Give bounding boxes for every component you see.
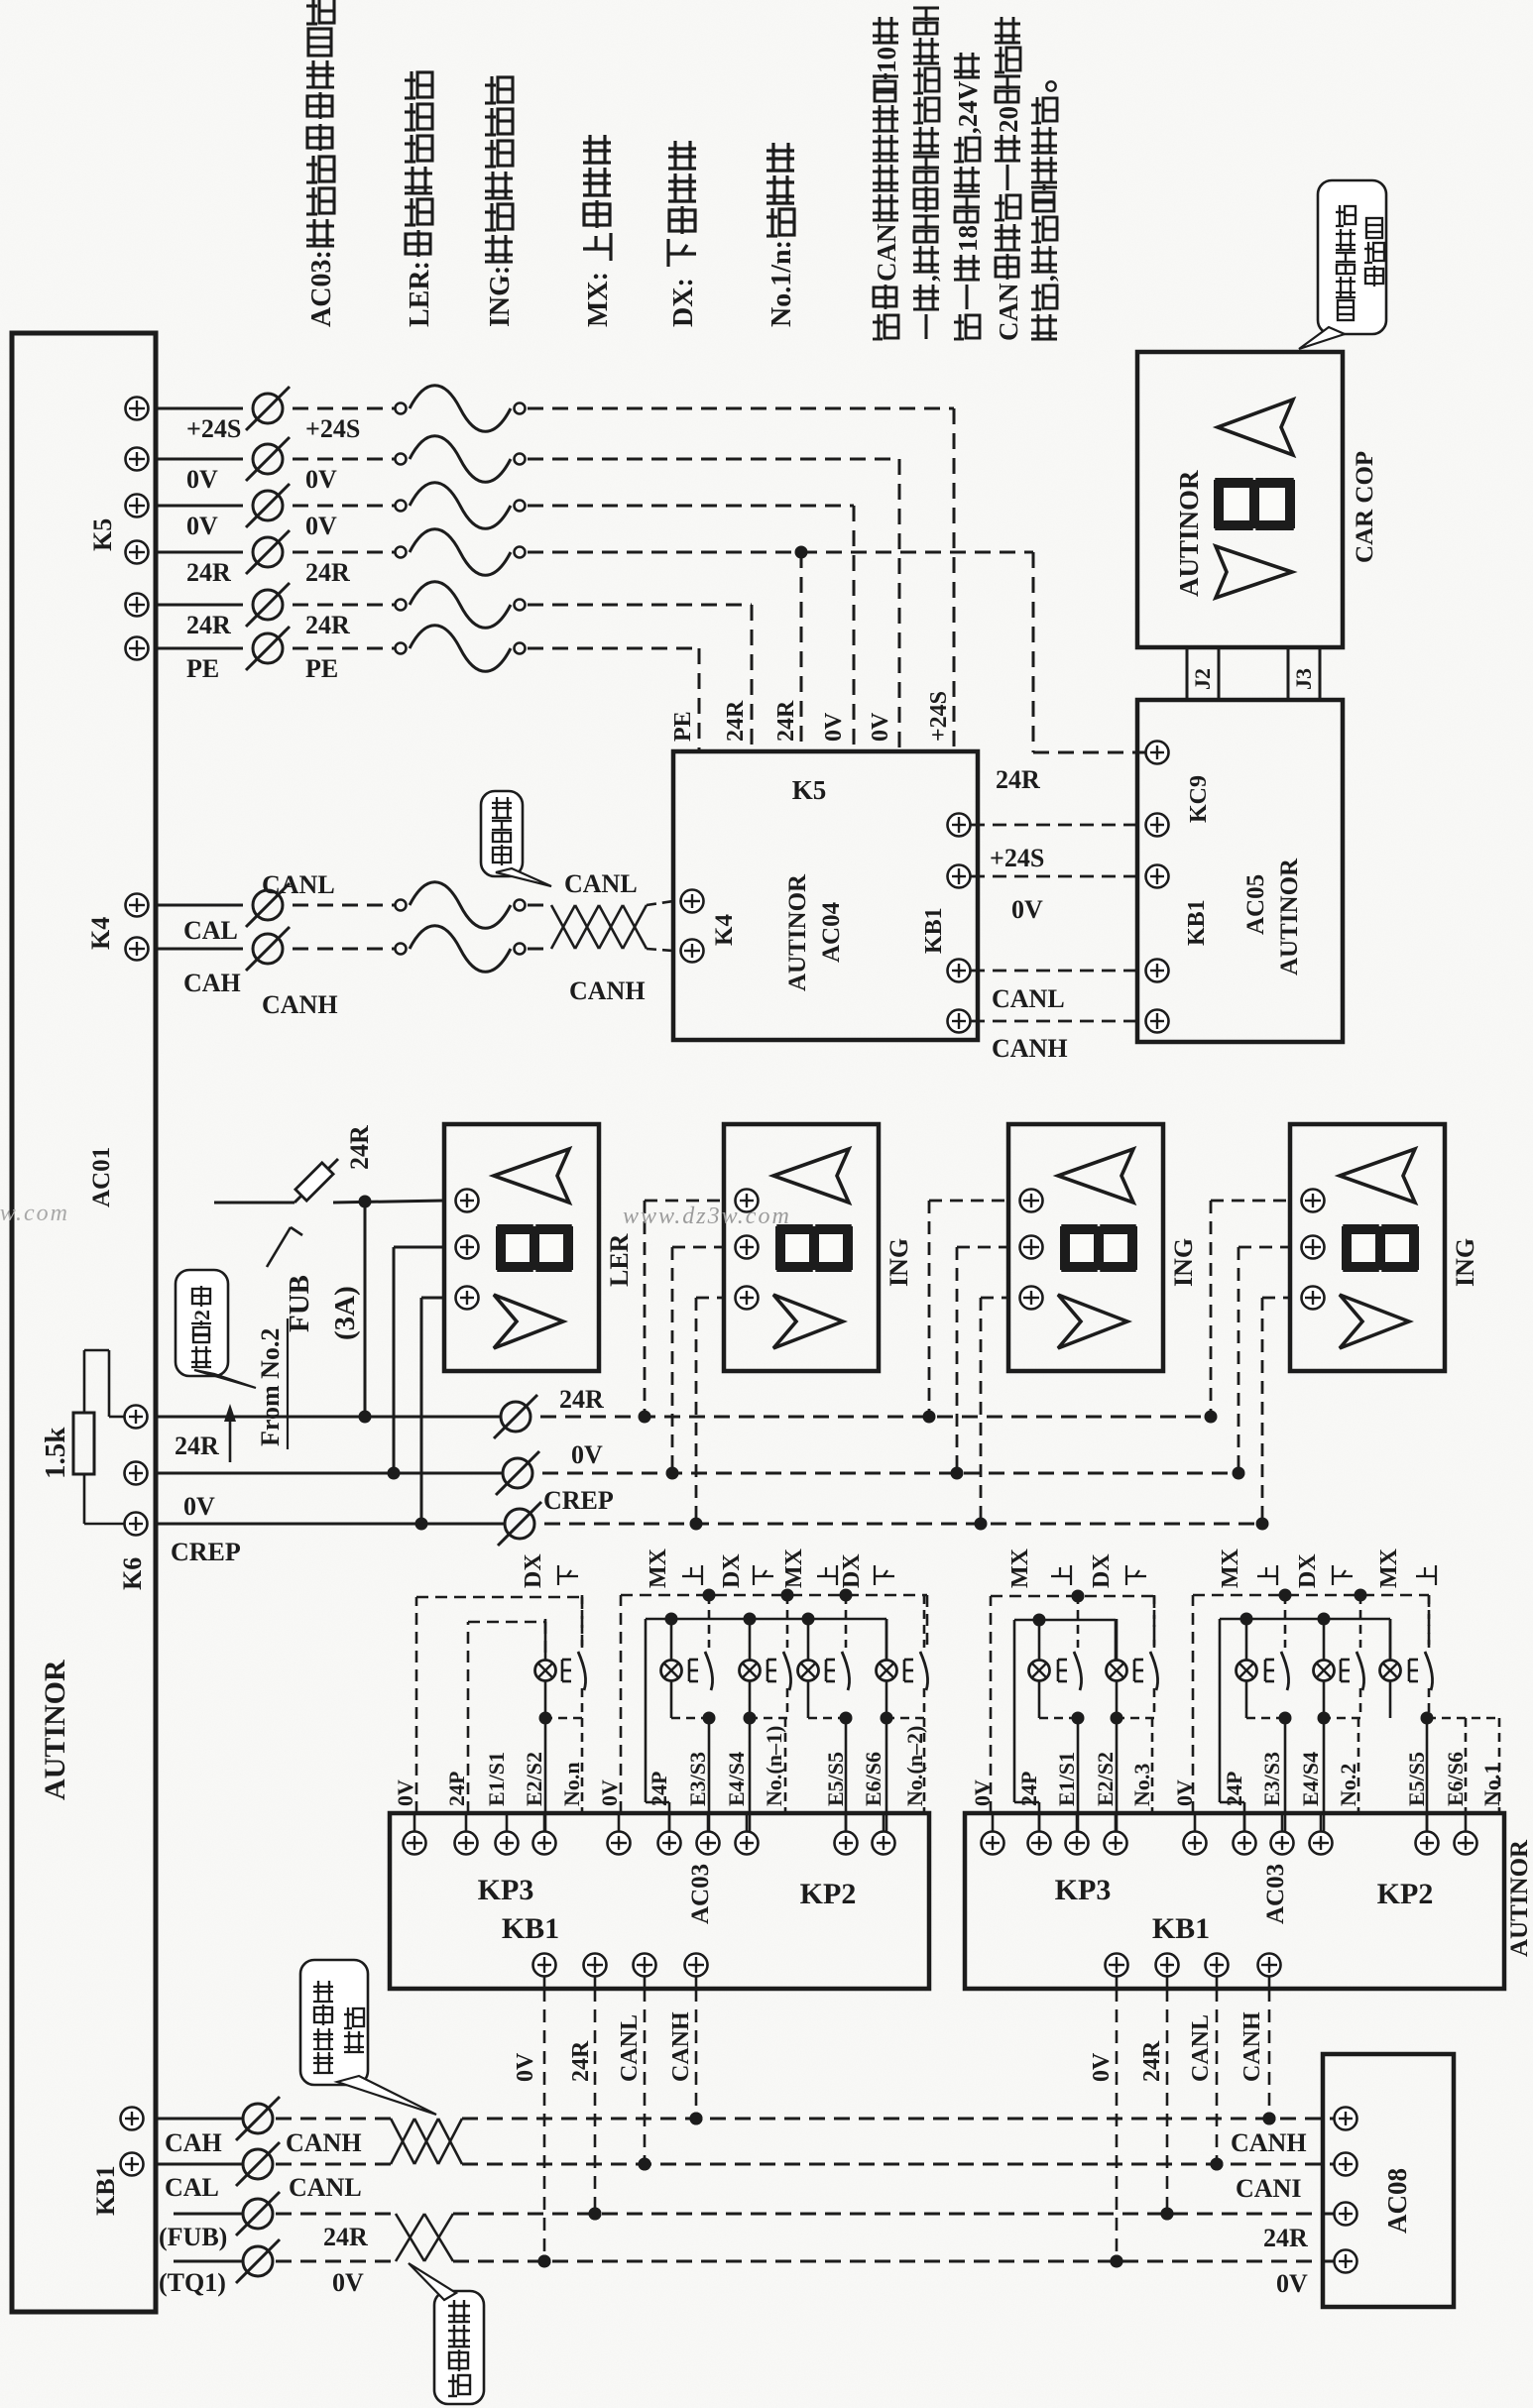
resistor 1.5k [73,1350,125,1524]
drop wires 24R/0V/CREP for display box at x=1017 [923,1201,1009,1531]
svg-text:DX: DX [719,1553,745,1588]
terminal KB1-2 (AC05) [1146,865,1169,888]
label CREP (K6) [171,1538,241,1566]
wire 24R vertical into AC04 [795,546,808,752]
svg-text:24R: 24R [186,558,231,587]
labels DX 下 (left A) [521,1553,578,1588]
svg-text:10: 10 [872,47,901,73]
svg-text:24R: 24R [305,558,350,587]
svg-text:CAL: CAL [183,916,238,945]
svg-text:0V: 0V [186,465,218,494]
svg-text:0V: 0V [332,2268,364,2297]
label CANL [262,870,335,899]
terminal KC9 (AC05) [1146,742,1169,764]
svg-text:KB1: KB1 [921,907,947,954]
note tick mark [267,1227,302,1267]
net 0V dashed rect (left A) [416,1597,582,1813]
connector J3 [1288,647,1320,700]
svg-text:AC03:: AC03: [306,250,337,327]
label AC08 [1382,2168,1412,2234]
svg-text:PE: PE [670,711,696,742]
connector KB1 label (AC01) [91,2165,120,2216]
labels DX 下 (2) [839,1553,894,1588]
connector K4 label [86,917,115,950]
7-segment digit 8 (CAR COP) [1214,477,1295,531]
connector J2 [1187,647,1219,700]
terminal K4 CAH (AC01) [126,938,149,961]
net 24P dashed rect (left A) [468,1622,545,1813]
labels MX 上 (right B2) [1376,1548,1436,1588]
label (TQ1) [159,2268,226,2297]
svg-text:(TQ1): (TQ1) [159,2268,226,2297]
svg-text:CREP: CREP [543,1486,614,1515]
labels MX 上 (2) [781,1548,837,1588]
label (3A) [329,1286,361,1340]
wire 24R drop (right group bottom) [1139,1954,1179,2221]
terminal KB1-3 (AC04) [948,960,971,982]
svg-text:CREP: CREP [171,1538,241,1566]
net 0V dashed rect (right B) [1193,1589,1429,1814]
controller AC01 cabinet box [12,333,156,2312]
svg-text:CANH: CANH [1239,2011,1265,2082]
svg-text:KC9: KC9 [1186,775,1212,823]
svg-text:20: 20 [994,106,1023,133]
svg-text:0V: 0V [393,1779,417,1806]
communication module AC04 box [673,751,978,1040]
terminal K4-2 (AC04) [681,940,704,963]
svg-text:KP3: KP3 [1055,1874,1112,1906]
label CANL (right) [564,869,638,898]
svg-text:AUTINOR: AUTINOR [1506,1839,1533,1957]
call button DX floor n (left A) [535,1595,586,1832]
note cable spec line2 [912,8,942,339]
svg-text:1.5k: 1.5k [40,1427,71,1479]
svg-text:24P: 24P [1016,1772,1041,1806]
svg-text:No.n: No.n [559,1762,584,1806]
svg-text:ING:: ING: [485,266,516,327]
net 0V dashed line (left B) [621,1589,927,1814]
svg-text:+24S: +24S [926,691,952,742]
wire LER terminal3 to CREP bus [415,1298,445,1531]
drop wires 24R/0V/CREP for display box at x=730 [639,1201,725,1531]
hall call unit box KP3/KB1/AC03/KP2 (right) [965,1813,1504,1989]
call button DX floor 3 (right) [1107,1595,1158,1832]
terminal K6-2 0V [125,1462,148,1485]
svg-text:DX:: DX: [668,278,699,327]
svg-text:DX: DX [1295,1553,1321,1588]
wire 0V drop (left group bottom) [513,1954,556,2268]
label AUTINOR (right page edge) [1506,1839,1533,1957]
labels top pins (right group) [970,1752,1504,1806]
svg-text:,24V: ,24V [953,80,983,134]
labels DX 下 [719,1553,773,1588]
svg-text:24R: 24R [559,1385,604,1414]
svg-text:24P: 24P [647,1772,671,1806]
label AUTINOR (AC05) [1276,858,1303,975]
svg-text:(FUB): (FUB) [159,2223,227,2251]
drop wires 24R/0V/CREP for display box at x=1301 [1205,1201,1291,1531]
svg-text:CANL: CANL [289,2173,362,2202]
callout 直流电源 [409,2263,484,2404]
svg-text:ING: ING [1451,1238,1479,1287]
wire +24S from AC01 K5 (row y=412) [126,386,955,443]
svg-text:No.3: No.3 [1129,1764,1154,1806]
svg-text:MX: MX [1376,1548,1402,1588]
twisted pair symbol (CAN bus) [551,901,673,951]
label KB1 (AC04) [921,907,947,954]
svg-text:CAH: CAH [183,969,241,997]
svg-text:KP2: KP2 [800,1878,857,1910]
label 0V (K6) [183,1492,215,1521]
watermark center [623,1204,791,1229]
wire 24R fuse to bus [359,1202,372,1424]
svg-text:www.dz3w.com: www.dz3w.com [0,1201,69,1226]
note cable spec line5 [1030,81,1060,339]
label AUTINOR (AC04) [784,873,811,991]
svg-text:0V: 0V [305,465,337,494]
labels AC04 top pins PE/24R/24R/0V/0V/+24S [670,691,952,742]
label 0V (bottom) [332,2268,364,2297]
label CANL (bottom) [289,2173,362,2202]
wire CANH from K4 [156,926,551,973]
svg-text:24P: 24P [1222,1772,1246,1806]
svg-text:AC01: AC01 [88,1147,115,1207]
bus 24R [156,1385,1211,1438]
note ING:厅外层楼显示 [485,76,516,327]
svg-text:CAN: CAN [872,223,901,282]
wire PE from AC01 K5 (row y=654) [126,626,700,683]
note LER:机房层楼显示 [405,71,435,327]
note cable spec line1 [872,17,901,339]
svg-text:DX: DX [839,1553,865,1588]
label (FUB) [159,2223,227,2251]
terminals top pins (right group) [982,1813,1477,1855]
svg-text:K5: K5 [88,518,117,551]
svg-text:CAR COP: CAR COP [1352,451,1378,563]
svg-text:J3: J3 [1291,668,1316,690]
svg-text:DX: DX [1089,1553,1115,1588]
svg-text:CAN: CAN [994,283,1023,341]
svg-text:AUTINOR: AUTINOR [784,873,811,991]
svg-text:E2/S2: E2/S2 [1093,1752,1118,1806]
note MX: 上呼按钮 [583,135,614,327]
label AC04 [818,901,845,963]
label AC01 [88,1147,115,1207]
svg-text:0V: 0V [186,512,218,540]
svg-text:AC04: AC04 [818,901,845,963]
label CANH (bottom) [286,2128,362,2157]
floor display ING box at x=730 [724,1124,913,1371]
svg-text:AC05: AC05 [1242,874,1269,935]
labels MX 上 (right A) [1007,1548,1071,1588]
terminal AC08-1 [1335,2108,1357,2130]
bus CREP [156,1486,1266,1546]
arrow down (CAR COP) [1216,546,1292,598]
terminal KB1-1 (AC04) [948,814,971,837]
terminal KB1-2 (AC04) [948,865,971,888]
label CANH [262,990,338,1019]
svg-text:(3A): (3A) [329,1286,361,1340]
wire 24R from AC01 K5 (row y=557) [126,529,802,587]
call button MX floor 1 (right) [1380,1595,1434,1832]
svg-text:E5/S5: E5/S5 [823,1752,848,1806]
svg-text:KP3: KP3 [478,1874,534,1906]
label CAR COP [1352,451,1378,563]
label CAL [183,916,238,945]
wire 24R(2) vertical into AC04 [751,605,754,751]
bus CANL bottom [462,2158,1334,2171]
svg-text:,: , [912,275,942,282]
svg-text:+24S: +24S [305,414,360,443]
svg-text:CANH: CANH [668,2011,694,2082]
svg-text:LER: LER [605,1233,634,1287]
svg-text:CANL: CANL [992,984,1065,1013]
wire 0V drop (right group bottom) [1089,1954,1128,2268]
terminal KB1-4 (AC04) [948,1010,971,1033]
svg-text:24R: 24R [345,1125,374,1170]
labels DX 下 (right A) [1089,1553,1146,1588]
svg-text:CANH: CANH [992,1034,1068,1063]
svg-text:24P: 24P [444,1772,469,1806]
svg-text:ING: ING [1169,1238,1198,1287]
svg-text:E4/S4: E4/S4 [724,1752,749,1806]
svg-text:K5: K5 [792,775,827,805]
svg-text:CANI: CANI [1236,2174,1301,2203]
svg-text:CAL: CAL [165,2173,219,2202]
svg-text:AUTINOR: AUTINOR [1174,470,1204,597]
svg-text:0V: 0V [183,1492,215,1521]
svg-text:DX: DX [521,1553,546,1588]
svg-text:AC08: AC08 [1382,2168,1412,2234]
module AC08 box [1323,2054,1454,2307]
label CAL [165,2173,219,2202]
svg-text:2: 2 [189,1310,214,1320]
net 0V dashed rect (right A) [991,1590,1154,1814]
terminal KB1 CAH (AC01) [121,2108,144,2130]
svg-text:0V: 0V [1089,2052,1115,2082]
svg-text:E2/S2: E2/S2 [522,1752,546,1806]
labels top pins (left group) [393,1726,927,1806]
svg-text:0V: 0V [1011,895,1043,924]
wire CANL link AC04-AC05 [971,971,1145,1013]
svg-text:E1/S1: E1/S1 [484,1752,509,1806]
bus CANH bottom [462,2113,1334,2125]
svg-text:MX: MX [646,1548,671,1588]
svg-text:24R: 24R [186,611,231,639]
svg-text:24R: 24R [1263,2224,1308,2252]
svg-text:MX: MX [1218,1548,1243,1588]
wire CANH drop (right group bottom) [1239,1954,1281,2125]
svg-text:No.(n–1): No.(n–1) [762,1726,786,1806]
svg-text:K4: K4 [711,914,738,946]
bus 0V bottom [453,2255,1334,2268]
wire 24R drop (left group bottom) [568,1954,607,2221]
svg-text:,: , [1030,275,1060,282]
terminal K4-1 (AC04) [681,890,704,913]
call button DX floor n-2 (left) [877,1595,928,1832]
floor display ING box at x=1017 [1008,1124,1198,1371]
svg-text:K6: K6 [118,1557,147,1590]
svg-text:LER:: LER: [405,261,435,327]
svg-text:From No.2: From No.2 [256,1328,285,1446]
svg-text:AC03: AC03 [687,1864,714,1924]
net 24P line (right A) [1014,1614,1116,1832]
svg-text:E1/S1: E1/S1 [1054,1752,1079,1806]
bus 0V [156,1440,1238,1495]
car indicator driver AC05 box [1137,700,1343,1042]
svg-text:KB1: KB1 [1152,1912,1210,1945]
svg-text:MX: MX [781,1548,807,1588]
terminals top pins (left group) [404,1813,895,1855]
svg-text:KB1: KB1 [502,1912,559,1945]
svg-text:24R: 24R [323,2223,368,2251]
net 24P line (right B) [1220,1613,1390,1832]
note cable spec line3 [953,53,983,339]
floor display LER box at x=448 [444,1124,634,1371]
callout 信号通信电缆 [300,1960,436,2115]
terminal AC08-2 [1335,2153,1357,2176]
wire CANL drop (right group bottom) [1188,1954,1229,2171]
note DX: 下呼按钮 [668,141,699,327]
callout twisted-pair 双绞线 [481,791,551,886]
call button DX floor 2 (right) [1314,1595,1364,1832]
call button MX floor 2 (right) [1237,1595,1292,1832]
svg-text:E4/S4: E4/S4 [1298,1752,1323,1806]
svg-text:AUTINOR: AUTINOR [39,1660,71,1800]
wire 0V(2) vertical into AC04 [853,506,856,751]
wire CANH link AC04-AC05 [971,1021,1145,1063]
terminal K6-1 24R [125,1406,148,1429]
label From No.2 [256,1319,288,1449]
connector K5 label [88,518,117,551]
svg-text:24R: 24R [175,1432,219,1460]
terminal K6-3 CREP [125,1513,148,1536]
svg-text:ING: ING [884,1238,913,1287]
terminal AC08-4 [1335,2250,1357,2273]
terminal AC08-3 [1335,2203,1357,2226]
svg-text:0V: 0V [821,712,847,742]
svg-text:KP2: KP2 [1377,1878,1434,1910]
svg-text:PE: PE [186,654,219,683]
arrow from No.2 [224,1404,236,1462]
wire +24S link AC04-AC05 [971,825,1145,872]
call button MX floor n-2 (left) [798,1595,853,1832]
svg-text:0V: 0V [513,2052,538,2082]
label KB1 (AC05) [1184,899,1210,946]
svg-text:E3/S3: E3/S3 [1259,1752,1284,1806]
label KC9 [1186,775,1212,823]
svg-text:CAH: CAH [165,2128,222,2157]
svg-text:CANH: CANH [569,976,646,1005]
label AUTINOR (AC01) [39,1660,71,1800]
wire 0V link AC04-AC05 [971,876,1145,924]
svg-text:E5/S5: E5/S5 [1404,1752,1429,1806]
label CAH [183,969,241,997]
svg-text:E6/S6: E6/S6 [861,1752,885,1806]
watermark left edge [0,1201,69,1226]
svg-text:CANL: CANL [262,870,335,899]
svg-text:24R: 24R [996,765,1040,794]
label AC05 [1242,874,1269,935]
twisted pair symbol (bottom CAN) [391,2119,462,2164]
svg-text:0V: 0V [868,712,893,742]
wire CAL/CANL [156,2142,391,2186]
svg-text:24R: 24R [773,700,799,742]
svg-text:No.2: No.2 [1336,1764,1360,1806]
svg-text:K4: K4 [86,917,115,950]
wire PE vertical into AC04 [698,648,701,751]
bus 24R bottom [453,2208,1334,2221]
wire 0V from AC01 K5 (row y=510) [126,483,855,540]
svg-text:AUTINOR: AUTINOR [1276,858,1303,975]
svg-text:CANH: CANH [262,990,338,1019]
terminal KB1 CAL (AC01) [121,2153,144,2176]
terminal K4 CAL (AC01) [126,894,149,917]
svg-text:CANH: CANH [1231,2128,1307,2157]
car operating panel CAR COP box [1137,352,1343,647]
label 24R (bottom) [323,2223,368,2251]
svg-text:0V: 0V [305,512,337,540]
note cable spec line4 [994,17,1023,341]
svg-text:CANL: CANL [617,2014,643,2082]
svg-text:E3/S3: E3/S3 [685,1752,710,1806]
svg-text:PE: PE [305,654,338,683]
svg-text:+24S: +24S [990,844,1044,872]
callout 轿厢内层楼指示器 [1299,180,1386,349]
labels MX 上 (right B) [1218,1548,1277,1588]
labels AC08 side [1231,2128,1308,2298]
svg-text:24R: 24R [723,700,749,742]
label 24R (K6) [175,1432,219,1460]
svg-text:www.dz3w.com: www.dz3w.com [623,1204,791,1229]
wire (FUB)/24R [174,2192,396,2236]
wire CANH drop (left group bottom) [668,1954,708,2125]
svg-text:KB1: KB1 [1184,899,1210,946]
arrow up (CAR COP) [1218,400,1293,455]
net 24P line (left B) [646,1613,886,1832]
svg-text:CANL: CANL [564,869,638,898]
svg-text:J2: J2 [1190,668,1215,690]
svg-text:AC03: AC03 [1262,1864,1289,1924]
terminal KB1-3 (AC05) [1146,960,1169,982]
svg-text:24R: 24R [305,611,350,639]
connector K6 label [118,1557,147,1590]
labels MX 上 [646,1548,702,1588]
svg-text:CANL: CANL [1188,2014,1214,2082]
net E6/S6 + No.1 stubs [1427,1718,1499,1813]
label CAH [165,2128,222,2157]
wire +24S vertical into AC04 [953,408,956,751]
svg-text:+24S: +24S [186,414,241,443]
terminal KB1-4 (AC05) [1146,1010,1169,1033]
labels DX 下 (right B) [1295,1553,1353,1588]
wire CANL from K4 [156,882,551,929]
wire CAH/CANH [156,2097,391,2140]
svg-text:MX: MX [1007,1548,1033,1588]
callout 接第2页 [176,1270,256,1388]
svg-text:KB1: KB1 [91,2165,120,2216]
wire (TQ1)/0V [174,2239,396,2283]
label K4 (AC04) [711,914,738,946]
twisted pair symbol (bottom power) [396,2214,453,2261]
terminal KB1-1 (AC05) [1146,814,1169,837]
label 24R (fuse output) [345,1125,374,1170]
svg-text:CANH: CANH [286,2128,362,2157]
svg-text:24R: 24R [1139,2040,1165,2082]
call button MX floor n-1 (left) [661,1595,716,1832]
wire 24R branch to KC9 [801,552,1145,794]
note AC03: 层楼外呼通信模块 [306,0,337,327]
